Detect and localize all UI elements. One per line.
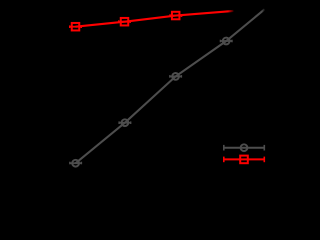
red errorbar point 3 bbox=[170, 12, 182, 19]
gray series line bbox=[76, 9, 265, 163]
gray errorbar point 4 bbox=[220, 38, 232, 45]
red errorbar point 2 bbox=[119, 18, 131, 26]
red series line bbox=[76, 11, 234, 27]
red errorbar point 1 bbox=[70, 23, 82, 31]
gray errorbar point 1 bbox=[70, 160, 82, 167]
gray errorbar point 2 bbox=[119, 119, 131, 126]
legend entry: red series sample bbox=[224, 156, 264, 164]
gray errorbar point 3 bbox=[170, 73, 182, 80]
legend entry: gray series sample bbox=[224, 144, 264, 151]
